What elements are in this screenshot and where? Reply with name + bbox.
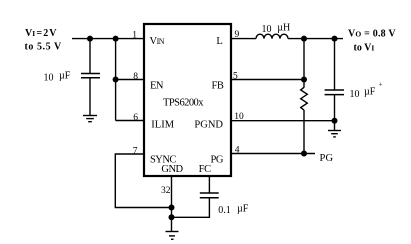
svg-text:PG: PG [320, 153, 334, 164]
svg-text:FB: FB [212, 81, 224, 92]
svg-text:TPS6200x: TPS6200x [163, 98, 204, 109]
svg-text:VI = 2 V: VI = 2 V [25, 28, 57, 39]
svg-text:7: 7 [133, 147, 138, 157]
svg-text:5: 5 [233, 72, 238, 82]
svg-text:32: 32 [161, 186, 171, 196]
svg-text:µH: µH [277, 22, 290, 33]
svg-text:µF: µF [364, 87, 376, 98]
svg-text:8: 8 [133, 72, 138, 82]
svg-text:GND: GND [161, 164, 183, 175]
svg-text:10: 10 [44, 73, 54, 84]
svg-text:to 5.5 V: to 5.5 V [25, 41, 62, 52]
svg-text:6: 6 [133, 113, 138, 123]
svg-text:ILIM: ILIM [151, 120, 174, 131]
svg-text:0.1: 0.1 [218, 205, 231, 216]
svg-text:VO = 0.8 V: VO = 0.8 V [348, 29, 396, 40]
svg-text:4: 4 [235, 146, 240, 156]
svg-text:µF: µF [59, 71, 71, 82]
svg-text:10: 10 [234, 112, 244, 122]
svg-text:10: 10 [350, 89, 360, 100]
svg-text:9: 9 [235, 30, 240, 40]
svg-text:+: + [379, 81, 383, 89]
svg-text:PGND: PGND [194, 120, 223, 131]
svg-text:to VI: to VI [354, 42, 375, 53]
svg-text:PG: PG [210, 154, 223, 165]
svg-text:10: 10 [262, 24, 272, 35]
svg-text:L: L [216, 36, 222, 47]
svg-text:VIN: VIN [150, 36, 165, 47]
svg-text:µF: µF [237, 204, 249, 215]
svg-text:FC: FC [199, 164, 211, 175]
svg-text:1: 1 [132, 30, 137, 40]
svg-text:EN: EN [150, 81, 164, 92]
